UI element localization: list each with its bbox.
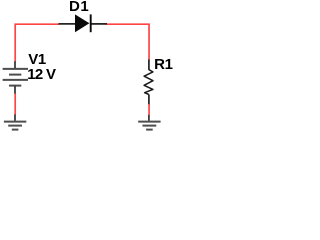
label R1 — [154, 57, 173, 72]
ground (left) bar 3 — [12, 129, 19, 131]
ground (right) pin stub — [148, 115, 150, 121]
battery V1 plate 3 (long) — [3, 79, 28, 81]
battery V1 plate 2 (short) — [9, 74, 21, 76]
ground (right) bar 2 — [143, 125, 157, 127]
label V1 — [28, 52, 46, 67]
battery V1 plate 4 (short) — [9, 85, 21, 87]
label 12 V — [27, 67, 55, 82]
wire: resistor bottom to ground — [148, 104, 150, 115]
battery V1 bottom pin stub — [14, 86, 16, 94]
ground (right) bar 1 — [138, 121, 160, 123]
resistor R1 bottom pin stub — [148, 95, 150, 105]
diode D1 body (triangle) — [75, 14, 89, 32]
ground (left) bar 2 — [8, 125, 22, 127]
resistor R1 zigzag body — [144, 70, 153, 95]
battery V1 plate 1 (long) — [3, 68, 28, 70]
diode D1 anode pin — [59, 23, 76, 25]
wire: battery bottom to ground — [14, 93, 16, 114]
resistor R1 top pin stub — [148, 59, 150, 70]
ground (left) bar 1 — [4, 121, 26, 123]
diode D1 cathode bar — [90, 14, 92, 32]
ground (left) pin stub — [14, 114, 16, 120]
diode D1 cathode pin — [92, 23, 108, 25]
wire: top horizontal net segment right of diode — [107, 24, 150, 59]
ground (right) bar 3 — [146, 129, 153, 131]
label D1 — [69, 0, 89, 14]
wire: left vertical net segment — [15, 24, 59, 61]
battery V1 top pin stub — [14, 61, 16, 69]
